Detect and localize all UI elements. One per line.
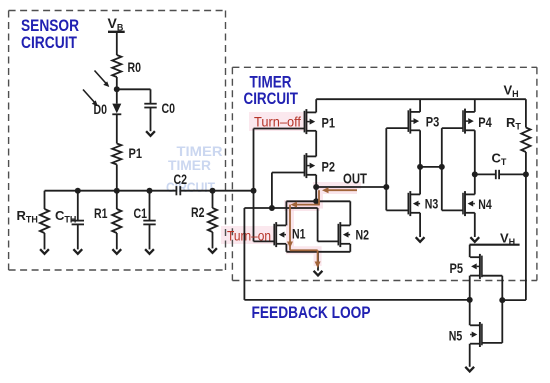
wire N2 gate riser: [317, 208, 319, 241]
red arrow into OUT: [326, 189, 357, 191]
wire P2 gate riser: [272, 172, 304, 174]
transistor P4: [462, 110, 464, 132]
wire rail to P1 drain: [315, 99, 317, 112]
svg-text:N2: N2: [356, 226, 370, 242]
svg-text:P1: P1: [129, 145, 143, 161]
wire R0 to node: [116, 77, 118, 104]
top VH rail: [316, 98, 526, 100]
wire N5 source to ground: [469, 344, 471, 367]
wire VB to R0: [116, 32, 118, 55]
wire D0 to P1: [116, 114, 118, 143]
svg-text:N1: N1: [292, 226, 306, 242]
OUT dot at inverter gates: [383, 184, 389, 190]
wire N4 drain riser: [474, 174, 476, 194]
wire P3 drain riser: [419, 130, 421, 167]
dot P2 gate tap: [269, 205, 275, 211]
svg-text:Turn–off: Turn–off: [254, 113, 301, 129]
light arrow 1: [95, 71, 107, 85]
N1-N2 source rail: [286, 251, 350, 253]
transistor P1: [303, 111, 305, 133]
timing node vertical: [525, 174, 527, 300]
dot CT right: [523, 171, 529, 177]
wire N5 gate riser: [501, 300, 503, 343]
svg-text:C2: C2: [174, 171, 188, 187]
junction dot R2: [210, 188, 216, 194]
svg-text:P5: P5: [450, 260, 464, 276]
capacitor CT: [495, 170, 497, 179]
svg-text:P4: P4: [478, 114, 492, 130]
junction dot R1: [114, 188, 120, 194]
svg-text:FEEDBACK LOOP: FEEDBACK LOOP: [252, 304, 371, 322]
ground CTH: [73, 249, 82, 254]
svg-text:R1: R1: [94, 205, 108, 221]
transistor N4: [462, 193, 464, 215]
svg-text:R0: R0: [128, 59, 142, 75]
wire VH to P5 source: [469, 245, 471, 258]
ground R2: [208, 248, 217, 253]
dot P4 gate line: [439, 164, 445, 170]
dot P5N5 gate node: [499, 297, 505, 303]
resistor R1: [116, 191, 118, 209]
wire N4 source to ground: [474, 213, 476, 237]
OUT node dot: [313, 184, 319, 190]
ground N3: [416, 237, 425, 242]
wire rail corner to RT: [525, 99, 527, 127]
wire N1 source riser: [285, 244, 287, 252]
wire P5 gate riser: [482, 275, 502, 277]
wire P3-N3 gate line: [385, 128, 387, 210]
resistor R0: [112, 55, 121, 77]
wire P4 drain riser: [474, 130, 476, 174]
wire P1 to rail: [116, 165, 118, 191]
svg-text:SENSOR: SENSOR: [21, 17, 79, 35]
wire CT right lead: [499, 173, 526, 175]
wire N1 drain riser: [285, 201, 287, 225]
bottom rail left of C2: [45, 190, 177, 192]
transistor N5: [481, 324, 483, 346]
red path down N1: [289, 205, 291, 244]
junction dot C1: [147, 188, 153, 194]
ground RTH: [40, 249, 49, 254]
feedback bottom wire: [244, 299, 469, 301]
svg-text:C0: C0: [162, 100, 176, 116]
dot feedback at P5N5: [467, 297, 473, 303]
N1-N2 drain line: [286, 200, 350, 202]
red path to ground: [289, 246, 291, 250]
ground R1: [112, 249, 121, 254]
timing node to gates stub: [502, 299, 526, 301]
supply VH symbol (P5): [470, 244, 520, 246]
transistor N1: [273, 224, 275, 246]
transistor N2: [337, 224, 339, 246]
transistor N3: [407, 193, 409, 215]
svg-text:P1: P1: [322, 114, 336, 130]
capacitor CTH: [77, 191, 79, 221]
wire N2 source riser: [349, 244, 351, 252]
svg-text:CIRCUIT: CIRCUIT: [244, 90, 299, 108]
wire rail to P3 source: [419, 99, 421, 112]
wire node to N5 drain: [469, 300, 471, 325]
ground C0: [146, 131, 155, 136]
wire input riser down to N1 gate (turn-on wire): [253, 191, 255, 242]
sensor circuit dashed box: [9, 10, 226, 12]
node dot R0/D0/C0: [114, 86, 120, 92]
svg-text:P3: P3: [426, 113, 440, 129]
wire rail to P4 source: [474, 99, 476, 112]
timer circuit dashed box: [232, 66, 537, 68]
supply VB symbol: [108, 31, 125, 33]
junction dot input: [251, 188, 257, 194]
feedback tap line: [244, 207, 317, 209]
svg-text:N3: N3: [425, 195, 439, 211]
bottom rail right of C2: [180, 190, 253, 192]
wire node to C0: [117, 88, 151, 90]
ground N5: [465, 367, 474, 372]
resistor RTH: [44, 191, 46, 209]
wire N2 drain riser: [349, 201, 351, 225]
svg-text:N5: N5: [449, 327, 463, 343]
wire P2 source to OUT: [315, 175, 317, 187]
glow red path out: [290, 190, 357, 266]
wire CT left lead: [475, 173, 496, 175]
wire source rail to ground: [317, 252, 319, 271]
wire P1 source to P2 drain: [315, 131, 317, 157]
ground N1 N2: [314, 271, 323, 276]
wire N3 source to ground: [419, 213, 421, 237]
wire N3 drain riser: [419, 167, 421, 195]
ground C1: [145, 249, 154, 254]
svg-text:TIMER: TIMER: [250, 74, 292, 92]
svg-text:P2: P2: [322, 158, 336, 174]
glow turn-off: [249, 112, 308, 131]
svg-text:CIRCUIT: CIRCUIT: [21, 34, 77, 52]
mid line P3 to P4 gate: [420, 166, 442, 168]
capacitor C2 (series): [175, 186, 177, 195]
feedback riser from OUT line: [243, 208, 245, 300]
resistor R2: [212, 191, 214, 208]
resistor P1: [112, 144, 121, 165]
wire C0 to ground: [150, 108, 152, 132]
capacitor C1: [149, 191, 151, 221]
OUT wire: [316, 186, 386, 188]
ground N4: [470, 237, 479, 242]
red path corner at OUT: [318, 190, 320, 204]
svg-text:C1: C1: [134, 205, 148, 221]
red arrow toward N1 drain: [295, 204, 320, 206]
wire input riser up to P1 gate (turn-off wire): [253, 129, 255, 191]
light arrow 2: [83, 90, 95, 104]
resistor RT: [521, 128, 530, 153]
capacitor C0: [144, 103, 156, 105]
dot P3 drain: [417, 164, 423, 170]
dot drain line: [313, 198, 319, 204]
transistor P3: [407, 110, 409, 132]
svg-text:N4: N4: [478, 196, 492, 212]
wire P5 drain to node: [469, 276, 471, 300]
dot CT left: [472, 171, 478, 177]
transistor P5: [481, 256, 483, 278]
wire OUT down to drain line: [315, 187, 317, 201]
wire P4-N4 gate line: [441, 128, 443, 210]
junction dot CTH: [75, 188, 81, 194]
svg-text:OUT: OUT: [343, 171, 367, 188]
glow turn-on: [221, 226, 277, 244]
transistor P2: [303, 155, 305, 177]
photodiode D0: [112, 104, 121, 114]
svg-text:R2: R2: [191, 204, 205, 220]
svg-text:Turn–on: Turn–on: [227, 227, 271, 243]
wire RT to CT node: [525, 152, 527, 174]
red arrow into ground: [317, 250, 319, 264]
